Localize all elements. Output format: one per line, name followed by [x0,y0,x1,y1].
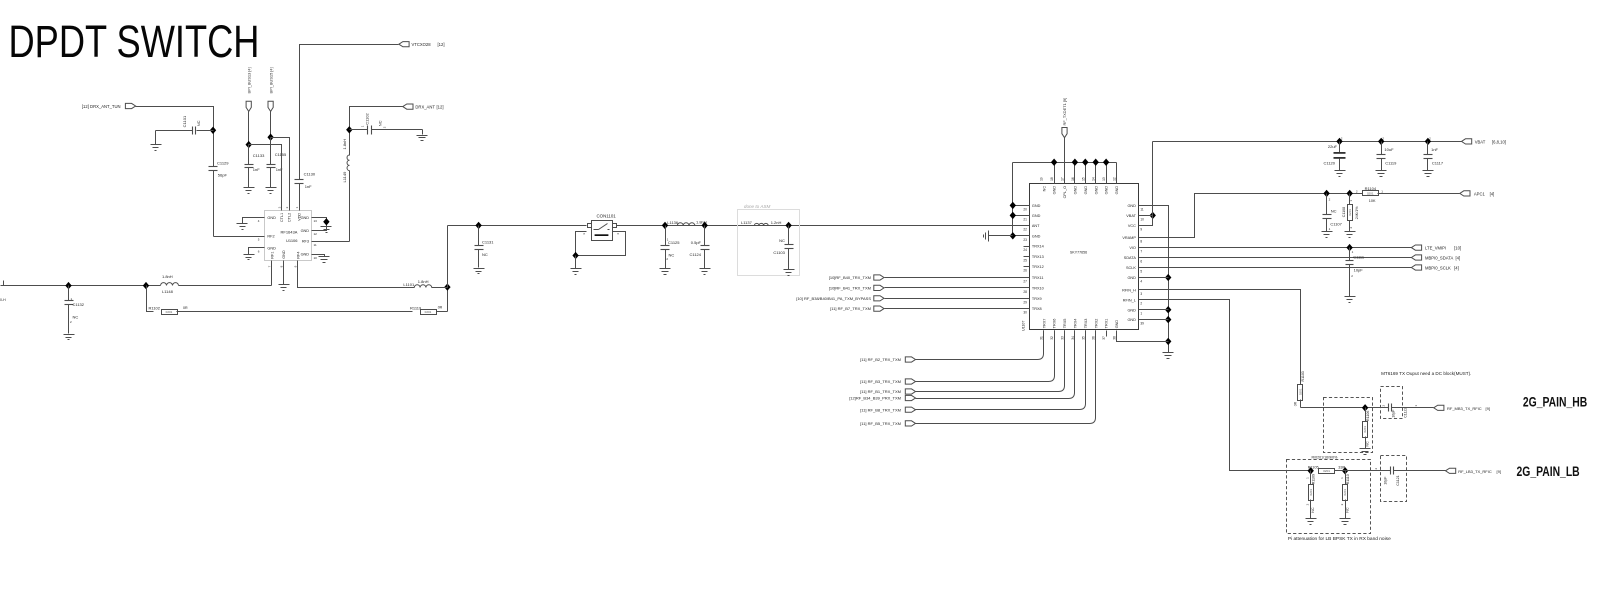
svg-text:RF_MB3_TX_RFIC: RF_MB3_TX_RFIC [1447,406,1482,411]
svg-text:SCLK: SCLK [1126,266,1136,270]
svg-text:C1111: C1111 [1353,255,1365,260]
svg-text:33: 33 [1061,336,1065,340]
svg-text:L1101: L1101 [403,282,415,287]
svg-text:C1117: C1117 [1432,160,1444,165]
svg-text:C1120: C1120 [1324,160,1336,165]
svg-text:C1119: C1119 [1385,160,1397,165]
svg-text:[10]RF_B41_TRX_TXM: [10]RF_B41_TRX_TXM [829,286,871,291]
svg-text:33R: 33R [1338,465,1345,469]
svg-text:[11] RF_B2_TRX_TXM: [11] RF_B2_TRX_TXM [860,357,901,362]
svg-text:C1129: C1129 [217,160,229,165]
svg-text:NC: NC [779,238,785,243]
svg-text:GND: GND [301,253,310,257]
svg-text:GND: GND [1074,186,1078,195]
svg-text:[9]: [9] [1497,469,1501,474]
svg-text:GND: GND [267,216,276,220]
svg-text:RFIN_L: RFIN_L [1123,298,1136,302]
svg-text:TRX5: TRX5 [1063,319,1067,329]
svg-text:BPI_BUS13 [4]: BPI_BUS13 [4] [246,67,251,93]
svg-text:DPDT SWITCH: DPDT SWITCH [9,16,260,67]
svg-text:0R: 0R [1294,401,1298,406]
svg-text:15: 15 [1081,177,1085,181]
svg-text:9: 9 [1140,227,1142,231]
svg-text:1nF: 1nF [305,184,312,189]
svg-text:10pF: 10pF [1354,267,1364,272]
svg-text:2G_PAIN_HB: 2G_PAIN_HB [1523,394,1587,410]
svg-text:0201: 0201 [1363,426,1367,433]
svg-text:0.5pF: 0.5pF [691,240,702,245]
svg-text:0201: 0201 [1348,209,1352,216]
svg-text:13: 13 [1102,177,1106,181]
svg-text:[10]RF_B40_TRX_TXM: [10]RF_B40_TRX_TXM [829,275,871,280]
svg-text:0201: 0201 [1367,192,1374,196]
svg-text:R1109: R1109 [1312,474,1316,484]
svg-text:C1155: C1155 [275,152,287,157]
svg-text:RF2: RF2 [267,235,274,239]
svg-text:3: 3 [1140,292,1142,296]
svg-text:C1122: C1122 [1404,407,1408,417]
svg-text:C1133: C1133 [253,153,265,158]
svg-text:NC: NC [377,120,382,126]
svg-text:[6,8,10]: [6,8,10] [1492,139,1506,144]
svg-text:5: 5 [1140,270,1142,274]
svg-text:[9]: [9] [1486,406,1490,411]
svg-text:TRX2: TRX2 [1094,319,1098,329]
svg-text:GND: GND [1127,276,1136,280]
svg-text:6: 6 [1140,260,1142,264]
svg-text:[12]: [12] [438,42,445,47]
svg-text:24K/1%: 24K/1% [1355,206,1359,219]
svg-text:0201: 0201 [1323,469,1330,473]
svg-text:38: 38 [1113,336,1117,340]
svg-text:0201: 0201 [425,310,432,314]
svg-text:1.8nH: 1.8nH [342,139,347,150]
svg-text:1nF: 1nF [253,167,260,172]
svg-text:30: 30 [1023,311,1027,315]
svg-text:1.8nH: 1.8nH [418,279,429,284]
svg-text:R/0201/16/9/0%: R/0201/16/9/0% [1312,456,1339,460]
svg-text:C1101: C1101 [182,115,187,127]
svg-text:VRAMP: VRAMP [1122,236,1136,240]
svg-text:GND: GND [1127,308,1136,312]
svg-text:13: 13 [314,219,318,223]
svg-text:35: 35 [1081,336,1085,340]
svg-text:10K: 10K [1369,199,1376,203]
svg-text:NC: NC [1331,209,1337,214]
svg-text:RFIN_H: RFIN_H [1122,288,1136,292]
svg-text:[11] RF_B7_TRX_TXM: [11] RF_B7_TRX_TXM [830,306,871,311]
svg-text:U1107: U1107 [1022,321,1026,331]
svg-text:56pF: 56pF [218,173,228,178]
svg-text:GND: GND [1115,320,1119,329]
svg-text:1.8nH: 1.8nH [696,219,707,224]
svg-text:11: 11 [1140,207,1144,211]
svg-text:12: 12 [1113,177,1117,181]
svg-text:TRX10: TRX10 [1032,287,1044,291]
svg-text:1.2nH: 1.2nH [771,220,782,225]
svg-text:RF3: RF3 [302,240,309,244]
svg-text:10: 10 [1140,217,1144,221]
svg-text:0R: 0R [438,305,443,309]
svg-text:C1102: C1102 [364,113,369,125]
svg-text:CTL2: CTL2 [288,213,292,222]
svg-text:[11] RF_B3_TRX_TXM: [11] RF_B3_TRX_TXM [860,379,901,384]
svg-text:TRX11: TRX11 [1032,276,1044,280]
svg-text:R1105: R1105 [1308,465,1319,469]
svg-text:C1124: C1124 [690,252,702,257]
svg-text:GND: GND [1094,186,1098,195]
svg-text:TRX4: TRX4 [1074,319,1078,329]
svg-text:[12] DRX_ANT_TUN: [12] DRX_ANT_TUN [82,104,121,109]
svg-text:RF1: RF1 [270,252,274,259]
svg-text:RF1643A: RF1643A [281,229,298,234]
svg-text:R1110: R1110 [1346,474,1350,484]
svg-text:[10] RF_B38/B40/B41_PA_TXM_BYP: [10] RF_B38/B40/B41_PA_TXM_BYPASS [796,296,871,301]
svg-text:12: 12 [314,232,318,236]
svg-text:NC: NC [669,252,675,257]
svg-text:NC: NC [73,315,79,320]
svg-text:C1131: C1131 [482,239,494,244]
svg-text:L1137: L1137 [741,220,753,225]
svg-text:10pF: 10pF [1391,409,1395,418]
svg-text:[12]: [12] [437,105,444,110]
svg-text:[12]RF_B34_B39_PRX_TXM: [12]RF_B34_B39_PRX_TXM [849,396,901,401]
svg-text:GND: GND [1127,204,1136,208]
svg-text:22: 22 [1023,227,1027,231]
svg-text:GND: GND [267,246,276,250]
svg-text:29: 29 [1023,300,1027,304]
svg-text:0R: 0R [183,306,188,310]
svg-text:18: 18 [1050,177,1054,181]
svg-text:21: 21 [1023,217,1027,221]
svg-text:TRX8: TRX8 [1032,307,1042,311]
svg-text:TRX12: TRX12 [1032,265,1044,269]
svg-text:GND: GND [1032,234,1041,238]
svg-text:NC: NC [1042,186,1046,192]
svg-text:BPI_BUS15 [4]: BPI_BUS15 [4] [268,67,273,93]
svg-text:GND: GND [1032,214,1041,218]
svg-text:17: 17 [1061,177,1065,181]
svg-text:2: 2 [1140,302,1142,306]
svg-text:32: 32 [1050,336,1054,340]
svg-text:C1103: C1103 [773,250,785,255]
svg-text:TRX7: TRX7 [1042,319,1046,329]
svg-text:7: 7 [1140,250,1142,254]
svg-text:0201: 0201 [166,310,173,314]
svg-text:C1132: C1132 [73,302,85,307]
svg-text:GND: GND [1053,186,1057,195]
svg-text:[4]: [4] [1490,191,1495,196]
svg-text:[4]: [4] [1456,256,1461,261]
svg-text:GND: GND [301,229,310,233]
svg-text:[11] RF_B8_TRX_TXM: [11] RF_B8_TRX_TXM [860,407,901,412]
svg-text:GND: GND [1127,318,1136,322]
svg-text:U1106: U1106 [286,238,298,243]
svg-text:R1104: R1104 [1365,186,1377,191]
svg-text:GND: GND [1032,204,1041,208]
svg-text:NC: NC [196,120,201,126]
svg-text:MBPI0_SCLK: MBPI0_SCLK [1425,266,1451,271]
svg-text:R1106: R1106 [1366,411,1370,421]
svg-text:VBAT: VBAT [1475,139,1486,144]
svg-text:RF_TXDET1 [9]: RF_TXDET1 [9] [1062,98,1067,126]
svg-text:NC: NC [482,252,488,257]
svg-text:0201: 0201 [1298,388,1302,395]
svg-text:VBAT: VBAT [1126,214,1136,218]
svg-text:0201: 0201 [1309,489,1313,496]
svg-text:22uF: 22uF [1328,144,1338,149]
svg-text:CTL1: CTL1 [280,213,284,222]
svg-text:0-H: 0-H [0,298,6,302]
svg-text:GND: GND [1105,186,1109,195]
svg-text:10: 10 [314,256,318,260]
svg-text:LTE_VMIPI: LTE_VMIPI [1425,246,1446,251]
svg-text:39: 39 [1140,322,1144,326]
svg-text:28: 28 [1023,290,1027,294]
svg-text:CPL_O: CPL_O [1063,186,1067,198]
svg-text:R1103: R1103 [1301,371,1305,381]
svg-text:TRX3: TRX3 [1084,319,1088,329]
svg-text:L1149: L1149 [342,171,347,183]
svg-text:1nF: 1nF [276,167,283,172]
svg-text:23: 23 [1023,238,1027,242]
svg-text:1.8nH: 1.8nH [162,274,173,279]
svg-text:19: 19 [1040,177,1044,181]
svg-text:VTCXO28: VTCXO28 [412,42,432,47]
svg-text:37: 37 [1102,336,1106,340]
svg-text:MT6169 TX Ouput need a DC bloc: MT6169 TX Ouput need a DC block(MUST). [1381,371,1471,376]
svg-text:ANT: ANT [1032,224,1040,228]
svg-text:SKY77656: SKY77656 [1070,251,1087,255]
svg-text:SDATA: SDATA [1124,256,1137,260]
svg-text:24: 24 [1023,248,1027,252]
svg-text:done to ASM: done to ASM [744,204,771,209]
svg-text:NC: NC [1311,507,1315,513]
svg-text:C1108: C1108 [1342,207,1346,217]
svg-text:NC: NC [1365,441,1369,447]
svg-text:TRX1: TRX1 [1105,319,1109,329]
svg-text:RF4: RF4 [296,252,300,259]
svg-text:RF_LB3_TX_RFIC: RF_LB3_TX_RFIC [1458,469,1492,474]
svg-text:[11] RF_B1_TRX_TXM: [11] RF_B1_TRX_TXM [860,389,901,394]
svg-text:GND: GND [1115,186,1119,195]
svg-text:APC1: APC1 [1474,191,1486,196]
svg-text:0201: 0201 [1343,489,1347,496]
svg-text:[4]: [4] [1454,266,1459,271]
svg-text:11: 11 [314,243,317,247]
svg-text:4: 4 [1140,280,1142,284]
svg-text:20: 20 [1023,207,1027,211]
svg-text:TRX6: TRX6 [1053,319,1057,329]
svg-text:10pF: 10pF [1384,476,1388,485]
svg-text:TRX9: TRX9 [1032,297,1042,301]
svg-text:Pi attenuation for LB BPSK TX: Pi attenuation for LB BPSK TX in RX band… [1288,536,1391,542]
svg-text:GND: GND [301,216,310,220]
svg-text:C1107: C1107 [1330,221,1342,226]
svg-text:CON1101: CON1101 [597,213,617,218]
svg-text:10uF: 10uF [1384,147,1394,152]
svg-text:C1125: C1125 [668,240,680,245]
svg-text:MBPI0_SDATA: MBPI0_SDATA [1425,256,1453,261]
svg-text:C1130: C1130 [304,171,316,176]
svg-text:GND: GND [1084,186,1088,195]
svg-text:GND: GND [282,250,286,259]
svg-text:1nF: 1nF [1431,147,1438,152]
svg-text:2G_PAIN_LB: 2G_PAIN_LB [1517,463,1580,479]
svg-text:VIO: VIO [1129,246,1136,250]
svg-text:DRX_ANT: DRX_ANT [415,105,435,110]
svg-text:[11] RF_B5_TRX_TXM: [11] RF_B5_TRX_TXM [860,421,901,426]
svg-text:27: 27 [1023,280,1027,284]
svg-text:NC: NC [1345,507,1349,513]
svg-text:25: 25 [1023,258,1027,262]
svg-text:R1102: R1102 [149,306,161,311]
svg-text:TRX14: TRX14 [1032,245,1044,249]
svg-text:VCC: VCC [1128,224,1136,228]
svg-text:1: 1 [1140,312,1142,316]
svg-text:C1121: C1121 [1396,475,1400,485]
svg-text:L1148: L1148 [162,289,174,294]
svg-text:26: 26 [1023,269,1027,273]
svg-text:TRX13: TRX13 [1032,255,1044,259]
svg-text:8: 8 [1140,240,1142,244]
svg-text:[10]: [10] [1454,246,1461,251]
